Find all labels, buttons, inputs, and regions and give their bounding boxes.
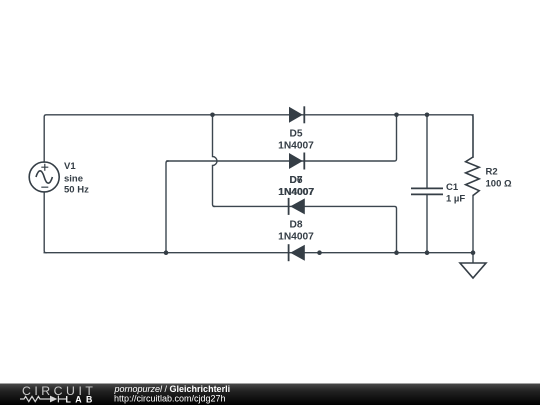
node dot bottom rail after D7: [317, 250, 322, 255]
node dot top rail / D8 branch: [210, 113, 215, 118]
wire R2 branch bottom: [472, 196, 474, 253]
wire capacitor branch top: [426, 115, 428, 189]
diode D5: [289, 106, 304, 123]
svg-text:D5: D5: [289, 129, 302, 140]
logo wire resistor diode art: [20, 396, 66, 403]
label D6 1N4007 overlapped with D7 1N4007: [278, 175, 314, 198]
wire ground stub: [472, 253, 474, 263]
ground: [460, 263, 486, 278]
svg-text:1N4007: 1N4007: [278, 141, 314, 152]
svg-text:LAB: LAB: [66, 394, 97, 404]
node dot top rail / C1 branch: [425, 113, 430, 118]
node dot bottom rail / D8 riser: [394, 250, 399, 255]
svg-text:100 Ω: 100 Ω: [486, 179, 512, 190]
capacitor C1: [411, 188, 443, 194]
wire R2 branch top: [472, 115, 474, 157]
svg-text:sine: sine: [64, 173, 83, 184]
wire D6 branch vertical from bottom rail: [166, 161, 168, 253]
resistor R2: [466, 157, 480, 196]
svg-text:1N4007: 1N4007: [279, 187, 315, 198]
node dot top rail / D6 riser: [394, 113, 399, 118]
diode D8: [289, 198, 305, 215]
svg-text:pornopurzel / Gleichrichterli: pornopurzel / Gleichrichterli: [114, 384, 231, 394]
svg-text:1N4007: 1N4007: [278, 232, 314, 243]
label D8 1N4007: [278, 220, 314, 243]
svg-text:1 µF: 1 µF: [446, 194, 465, 205]
wire from top rail over hop to D8 row: [213, 115, 218, 207]
node dot bottom rail / D6 branch: [164, 250, 169, 255]
node dot bottom rail / ground: [471, 250, 476, 255]
wire top rail with V1 top lead and R2 top lead: [44, 115, 473, 162]
diode D6: [289, 153, 304, 170]
label D5 1N4007: [278, 129, 314, 152]
svg-text:D8: D8: [289, 220, 302, 231]
node dot bottom rail / C1 branch: [425, 250, 430, 255]
label R2 100 ohm: [486, 167, 512, 190]
wire capacitor branch bottom: [426, 194, 428, 252]
wire D8 row horizontal: [214, 206, 397, 252]
svg-text:D7: D7: [289, 175, 302, 186]
svg-text:50 Hz: 50 Hz: [64, 185, 89, 196]
label V1 sine 50 Hz: [64, 161, 89, 196]
svg-text:V1: V1: [64, 161, 76, 172]
svg-text:C1: C1: [446, 182, 459, 193]
svg-text:R2: R2: [486, 167, 498, 178]
wire D6 row horizontal up to top rail: [167, 115, 397, 161]
voltage source V1: [29, 162, 59, 192]
label C1 1 uF: [446, 182, 465, 205]
svg-text:http://circuitlab.com/cjdg27h: http://circuitlab.com/cjdg27h: [114, 394, 226, 404]
diode D7 on bottom rail: [289, 244, 305, 261]
wire bottom rail: [44, 252, 473, 254]
wire V1 bottom lead: [44, 192, 46, 253]
